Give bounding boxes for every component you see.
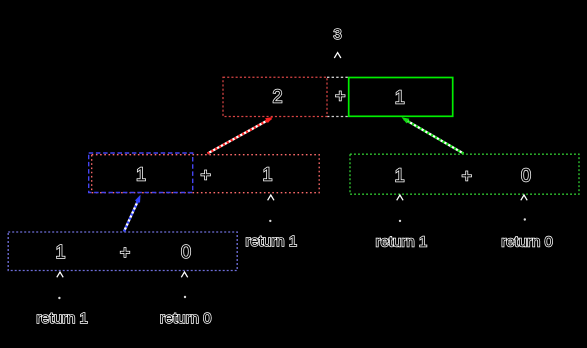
svg-text:0: 0	[521, 166, 531, 186]
svg-text:return 1: return 1	[245, 233, 297, 250]
caret under bottom 1	[57, 272, 63, 277]
svg-text:1: 1	[136, 165, 146, 185]
svg-text:0: 0	[181, 242, 191, 262]
fib(1)+fib(0) box (middle-left, red dotted)	[92, 155, 320, 193]
fib(1)+fib(0) box (middle-right, green dotted)	[350, 154, 579, 194]
svg-text:+: +	[200, 165, 211, 185]
dot	[58, 297, 60, 299]
svg-text:1: 1	[262, 165, 272, 185]
caret under middle-right 0	[521, 195, 527, 200]
green striped arrow	[402, 117, 464, 153]
caret under 3	[334, 53, 341, 58]
svg-text:+: +	[461, 166, 472, 186]
blue striped arrow	[124, 195, 141, 232]
dot	[524, 218, 526, 220]
svg-text:1: 1	[395, 166, 405, 186]
caret under middle-left right 1	[268, 195, 274, 200]
svg-text:+: +	[120, 242, 131, 262]
red striped arrow	[208, 117, 274, 154]
fib(2) box (top, red dashed)	[223, 77, 327, 116]
dot	[269, 220, 271, 222]
fib(1)+fib(0) box (bottom, blue dotted)	[8, 232, 237, 271]
svg-text:return 1: return 1	[36, 310, 88, 327]
fib(1) box (top, green solid)	[349, 78, 453, 117]
svg-text:1: 1	[55, 242, 65, 262]
svg-text:return 1: return 1	[376, 233, 428, 250]
caret under bottom 0	[181, 272, 187, 277]
dot	[184, 296, 186, 298]
plus-cell box (top, gray dashed)	[327, 76, 349, 78]
svg-text:2: 2	[272, 86, 282, 106]
svg-text:3: 3	[333, 26, 341, 43]
fib(1) cell box (middle-left, blue dashed)	[89, 153, 193, 193]
svg-text:1: 1	[395, 87, 405, 107]
svg-text:return 0: return 0	[160, 310, 212, 327]
caret under middle-right 1	[397, 195, 403, 200]
dot	[399, 220, 401, 222]
svg-text:return 0: return 0	[501, 233, 553, 250]
svg-text:+: +	[335, 86, 346, 106]
